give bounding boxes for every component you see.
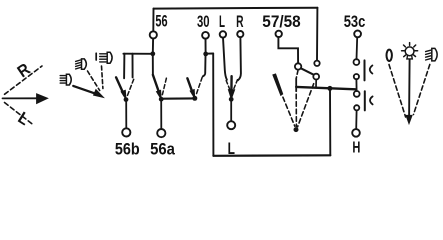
flasher icon headlight symbol 2 (flash, bar + lines) (96, 52, 112, 63)
contact A circle (295, 63, 301, 69)
wire 30 column lower with hook (203, 56, 206, 76)
svg-text:57/58: 57/58 (262, 12, 300, 31)
wire 30 stub to loop (206, 53, 214, 55)
dash G1 (127, 79, 133, 95)
flasher icon headlight symbol 3 (left, high beam) (60, 74, 71, 85)
contact B circle (314, 61, 319, 66)
junction dot 30 (203, 52, 208, 57)
wire contact C down (315, 80, 317, 88)
terminal 53c (354, 31, 361, 38)
terminal 57/58 (276, 31, 282, 37)
wire 53c down (356, 37, 359, 59)
dash G2 (162, 78, 166, 94)
spring hook 2 (370, 96, 373, 104)
terminal 30 (202, 32, 209, 39)
blade S5 (parking light blade A-C) (301, 68, 314, 74)
wire 56 to bus1 junction (152, 39, 154, 54)
blade G4 (turn signal blade) (228, 76, 234, 99)
light switch dashed ray to headlight (414, 65, 430, 115)
light switch icon label 0 (387, 50, 392, 61)
wire bus drop right (316, 8, 318, 61)
flasher lever blade (73, 86, 103, 98)
wire 56 drop (152, 9, 154, 32)
wire 57/58 to contact A (278, 37, 298, 63)
turn signal icon dashed ray L (5, 103, 34, 126)
blade G3 (flasher blade from 30) (187, 78, 194, 98)
contact dot 56b (124, 97, 129, 102)
svg-text:H: H (352, 139, 360, 156)
svg-text:R: R (14, 59, 34, 81)
terminal 56a (157, 129, 165, 137)
horn contact 1 lower circle (354, 74, 359, 79)
dash S5 mid ray upper (296, 71, 298, 78)
svg-text:R: R (236, 12, 243, 31)
connector wire 56a to G3 (flasher link) (163, 97, 192, 99)
big blade (light switch lever) (273, 74, 283, 95)
turn signal icon dashed ray R (5, 66, 43, 94)
contact C circle (313, 74, 319, 80)
svg-text:L: L (219, 12, 225, 31)
svg-text:56: 56 (155, 12, 167, 31)
wire to 56b (125, 102, 127, 129)
svg-text:56a: 56a (150, 140, 176, 158)
dash G4 right (233, 80, 237, 90)
terminal L bottom (227, 121, 235, 129)
junction dot loop (327, 86, 332, 91)
light switch icon bulb symbol (402, 43, 418, 59)
svg-text:L: L (228, 139, 235, 158)
thick wire junction to horn column (296, 87, 355, 89)
svg-text:L: L (15, 108, 33, 129)
terminal H (352, 129, 360, 137)
light switch lever line with arrow (406, 60, 412, 124)
svg-text:53c: 53c (344, 12, 366, 31)
wire 30 drop (205, 39, 207, 52)
horn contact 2 lower circle (354, 105, 359, 110)
dash G3 (196, 77, 202, 94)
turn signal lever icon: solid arrow (3, 94, 48, 104)
flasher icon headlight symbol 1 (low beam, slanted lines) (76, 59, 87, 69)
dash G4 left (226, 81, 230, 90)
dash S5 right ray (298, 84, 314, 127)
wire 56 column lower (152, 56, 154, 75)
terminal 56b (122, 128, 130, 136)
bus1 wire (123, 53, 152, 55)
svg-text:56b: 56b (115, 140, 140, 158)
wire to H (355, 111, 357, 130)
flasher dashed ray to symbol 1 (88, 71, 100, 91)
pushbar 1 (364, 60, 366, 80)
finger B (56b alt contact) (132, 54, 134, 78)
wire to 56a (160, 101, 162, 128)
dash S5 mid ray lower (295, 94, 297, 126)
loop left wire (212, 54, 214, 156)
horn contact 2 upper circle (354, 91, 360, 97)
blade G1 (dimmer blade to 56b) (116, 77, 126, 99)
light switch icon headlight symbol 4 (426, 48, 438, 61)
flasher dashed ray to symbol 2 (102, 66, 103, 89)
terminal L top (220, 31, 226, 37)
dash S5 left ray (283, 97, 295, 126)
pushbar 2 (364, 91, 366, 110)
wire L column with hook (223, 38, 227, 80)
pivot dot S5 (294, 127, 299, 132)
contact dot 56a (159, 97, 164, 102)
svg-text:30: 30 (197, 12, 210, 31)
top bus wire (154, 7, 318, 10)
dash S5 mid ray solid segment (295, 78, 297, 91)
wire between horn contacts (355, 79, 357, 91)
terminal 56 (150, 31, 157, 38)
wire to L bottom (230, 102, 232, 122)
finger A (56b fixed contact) (123, 54, 125, 79)
spring hook 1 (370, 65, 373, 73)
light switch dashed ray to 0 (389, 65, 406, 118)
wire R column with hook (238, 37, 241, 80)
junction dot bus1 (150, 51, 155, 56)
contact dot L bottom (229, 97, 234, 102)
horn contact 1 upper circle (354, 59, 360, 65)
terminal R (237, 31, 243, 37)
loop right wire (329, 89, 331, 156)
loop bottom wire (213, 154, 330, 157)
blade G2 (dimmer blade to 56a) (153, 75, 161, 99)
contact dot G3 (192, 96, 197, 101)
